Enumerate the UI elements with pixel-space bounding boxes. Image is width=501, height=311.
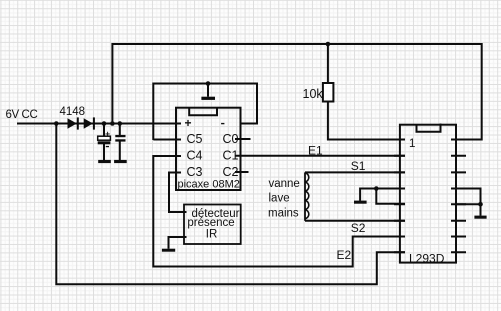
svg-text:C0: C0	[223, 132, 239, 146]
wire left drop to bottom rail and to L293D pin 8	[56, 124, 405, 285]
resistor R1 10k body	[323, 83, 334, 102]
node rail / 10k	[326, 42, 331, 47]
svg-text:mains: mains	[268, 207, 299, 219]
svg-text:C3: C3	[187, 165, 203, 179]
wire electrolytic cap top lead	[103, 124, 105, 137]
IC U2 L293D body	[400, 125, 456, 263]
ground under ceramic cap	[114, 160, 127, 163]
ground under electrolytic cap	[98, 160, 111, 163]
svg-text:+: +	[105, 129, 110, 139]
svg-text:6V CC: 6V CC	[6, 109, 38, 121]
svg-text:IR: IR	[206, 229, 218, 241]
node 6V junction	[54, 121, 59, 126]
wire L293D right pin ticks	[451, 140, 466, 253]
svg-text:vanne: vanne	[269, 178, 300, 190]
inductor coil valve	[305, 172, 309, 220]
wire L293D left ground branch	[360, 189, 405, 201]
svg-text:C2: C2	[223, 165, 239, 179]
wire plus pin tick	[171, 123, 182, 125]
wire S2 from coil to L293D	[305, 220, 405, 222]
wire C5 pin stub	[153, 139, 181, 141]
wire E1 from C1 to L293D	[235, 155, 405, 157]
wire C3 to detector	[169, 173, 187, 213]
node electrolytic cap top	[102, 121, 107, 126]
svg-text:C5: C5	[187, 132, 203, 146]
wire 10k bottom lead to L293D left pin 1	[328, 101, 405, 140]
label detecteur presence IR	[187, 208, 239, 241]
wire junction drop to L293D left pin 5	[376, 189, 405, 204]
diode D1	[68, 117, 79, 129]
svg-text:lave: lave	[269, 193, 290, 205]
node left ground cluster	[374, 186, 379, 191]
svg-text:S2: S2	[351, 221, 366, 235]
label vanne lave mains	[268, 178, 300, 219]
svg-text:4148: 4148	[60, 106, 86, 118]
wire detector ground lead	[169, 237, 187, 249]
wire C4 net to L293D left pin 7	[153, 156, 405, 267]
box detector IR	[184, 205, 241, 245]
ground L293D right cluster	[474, 216, 486, 219]
svg-text:présence: présence	[187, 217, 234, 229]
ground L293D left cluster	[354, 201, 367, 204]
wire L293D right pin 4 to ground node	[456, 203, 481, 205]
wire L293D right pin 3 to ground	[456, 189, 481, 216]
wire S1 from coil to L293D	[305, 171, 405, 173]
IC U2 notch	[417, 124, 441, 132]
node picaxe top ground	[206, 81, 211, 86]
wire stub to top ground bar	[207, 84, 209, 97]
wire electrolytic cap bottom lead	[103, 144, 105, 161]
capacitor C-ceramic plates	[115, 135, 125, 142]
wire ground loop C5 / minus pin	[153, 84, 257, 141]
node top-rail riser	[110, 121, 115, 126]
wire 10k top lead	[327, 44, 329, 84]
wire ceramic cap bottom lead	[119, 141, 121, 161]
wire L293D left pin ticks	[394, 140, 405, 253]
wire 6V input	[17, 123, 176, 125]
svg-text:E1: E1	[308, 144, 323, 158]
svg-text:10k: 10k	[303, 87, 324, 101]
svg-text:C4: C4	[187, 148, 203, 162]
IC U1 picaxe 08M2 body	[176, 108, 241, 190]
svg-text:1: 1	[409, 138, 415, 150]
diode D2	[84, 117, 95, 129]
svg-text:E2: E2	[337, 248, 352, 262]
svg-text:picaxe 08M2: picaxe 08M2	[178, 178, 240, 190]
svg-text:L293D: L293D	[409, 251, 445, 265]
node right ground cluster	[478, 202, 483, 207]
wire ceramic cap top lead	[119, 124, 121, 136]
capacitor C-electrolytic plates	[98, 129, 111, 148]
svg-text:+: +	[184, 116, 191, 130]
wire detector pin ticks	[179, 212, 187, 237]
node ceramic cap top	[118, 121, 123, 126]
wire top rail from post-diode node to L293D right pin 1	[112, 44, 481, 140]
svg-text:S1: S1	[351, 159, 366, 173]
ground under detector	[162, 249, 175, 252]
wire C2 stub	[235, 171, 249, 173]
label minus pin	[221, 123, 224, 124]
ground picaxe top	[201, 97, 215, 100]
IC U1 notch	[189, 108, 217, 115]
svg-text:C1: C1	[223, 148, 239, 162]
wire C0 stub	[235, 138, 251, 140]
